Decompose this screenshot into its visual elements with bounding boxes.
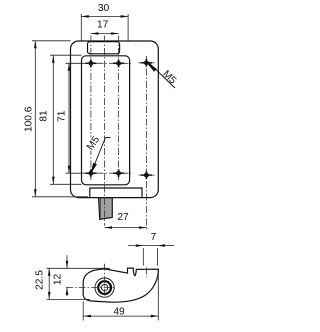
- svg-text:M5: M5: [85, 134, 102, 152]
- svg-text:30: 30: [98, 3, 110, 14]
- svg-text:M5: M5: [160, 69, 178, 87]
- svg-text:100.6: 100.6: [24, 106, 35, 132]
- svg-text:12: 12: [52, 274, 63, 286]
- svg-text:81: 81: [39, 110, 50, 122]
- svg-text:71: 71: [56, 110, 67, 122]
- svg-text:22.5: 22.5: [35, 270, 46, 290]
- svg-text:49: 49: [113, 307, 125, 318]
- svg-text:17: 17: [97, 20, 109, 31]
- svg-text:7: 7: [151, 232, 157, 243]
- svg-text:27: 27: [117, 212, 129, 223]
